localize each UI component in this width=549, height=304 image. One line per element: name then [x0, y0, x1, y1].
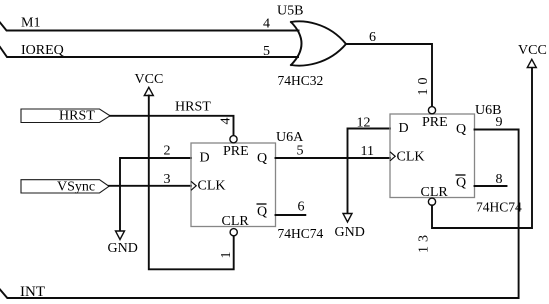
svg-text:74HC74: 74HC74: [476, 200, 522, 215]
U6B CLR bubble: [428, 198, 435, 205]
U6A PRE bubble: [230, 136, 237, 143]
D flip-flop U6A body: [191, 143, 276, 227]
U6A Q-bar overline: [257, 203, 267, 205]
U6A CLR bubble: [230, 229, 237, 236]
svg-text:1: 1: [219, 252, 234, 259]
svg-text:HRST: HRST: [59, 109, 95, 124]
wire net IOREQ to U5B pin 5: [0, 47, 298, 57]
svg-text:8: 8: [496, 172, 503, 187]
svg-text:CLR: CLR: [222, 214, 250, 229]
svg-text:9: 9: [496, 115, 503, 130]
U6A clock triangle: [191, 181, 196, 190]
wire U5B output pin 6 to U6B PRE pin 10: [346, 44, 432, 106]
svg-text:4: 4: [263, 17, 270, 32]
wire VCC to U6A CLR pin 1: [149, 96, 234, 270]
svg-text:U5B: U5B: [277, 4, 303, 19]
stub U6B Q-bar pin 8: [475, 185, 507, 187]
svg-text:6: 6: [298, 200, 305, 215]
wire U6B D pin 12 to GND: [348, 129, 391, 214]
svg-text:3: 3: [164, 172, 171, 187]
wire U6B CLR pin 13 to VCC: [432, 68, 532, 229]
svg-text:VSync: VSync: [57, 180, 95, 195]
wire HRST to U6A PRE pin 4: [110, 116, 234, 136]
svg-text:GND: GND: [108, 241, 138, 256]
svg-text:INT: INT: [20, 284, 45, 300]
svg-text:Q: Q: [456, 122, 466, 137]
svg-text:10: 10: [416, 74, 431, 96]
svg-text:CLK: CLK: [397, 150, 425, 165]
svg-text:D: D: [200, 151, 210, 166]
svg-text:M1: M1: [21, 16, 40, 31]
svg-text:74HC74: 74HC74: [278, 226, 324, 241]
svg-text:2: 2: [164, 144, 171, 159]
U6B Q-bar overline: [456, 174, 466, 176]
svg-text:13: 13: [417, 231, 432, 253]
VCC arrow symbol right: [527, 59, 536, 67]
svg-text:12: 12: [357, 116, 371, 131]
svg-text:VCC: VCC: [135, 72, 164, 87]
wire U6B Q pin 9 to net INT: [0, 130, 519, 299]
svg-text:GND: GND: [335, 225, 365, 240]
svg-text:Q: Q: [257, 151, 267, 166]
svg-text:4: 4: [219, 118, 234, 125]
svg-text:HRST: HRST: [175, 100, 211, 115]
svg-text:D: D: [399, 121, 409, 136]
GND arrow symbol left: [116, 231, 125, 240]
svg-text:VCC: VCC: [518, 43, 547, 58]
svg-text:Q: Q: [456, 176, 466, 191]
wire U6A Q pin 5 to U6B CLK pin 11: [276, 157, 391, 159]
U6B PRE bubble: [428, 107, 435, 114]
svg-text:PRE: PRE: [422, 115, 448, 130]
svg-text:CLR: CLR: [421, 185, 449, 200]
svg-text:5: 5: [297, 144, 304, 159]
U6B clock triangle: [390, 152, 395, 161]
svg-text:74HC32: 74HC32: [278, 73, 324, 88]
svg-text:5: 5: [263, 44, 270, 59]
wire U6A D pin 2 to GND: [120, 158, 191, 231]
svg-text:Q: Q: [257, 205, 267, 220]
VCC arrow symbol left: [144, 87, 153, 95]
svg-text:CLK: CLK: [198, 179, 226, 194]
svg-text:IOREQ: IOREQ: [21, 43, 64, 58]
port HRST: [21, 109, 110, 123]
OR gate U5B: [291, 21, 346, 65]
port VSync: [21, 180, 109, 193]
D flip-flop U6B body: [390, 114, 475, 198]
svg-text:PRE: PRE: [223, 144, 249, 159]
GND arrow symbol middle: [343, 214, 352, 223]
svg-text:11: 11: [361, 144, 374, 159]
wire net M1 to U5B pin 4: [0, 23, 299, 31]
wire VSync to U6A CLK pin 3: [109, 185, 191, 187]
stub U6A Q-bar pin 6: [276, 214, 306, 216]
svg-text:6: 6: [369, 30, 376, 45]
